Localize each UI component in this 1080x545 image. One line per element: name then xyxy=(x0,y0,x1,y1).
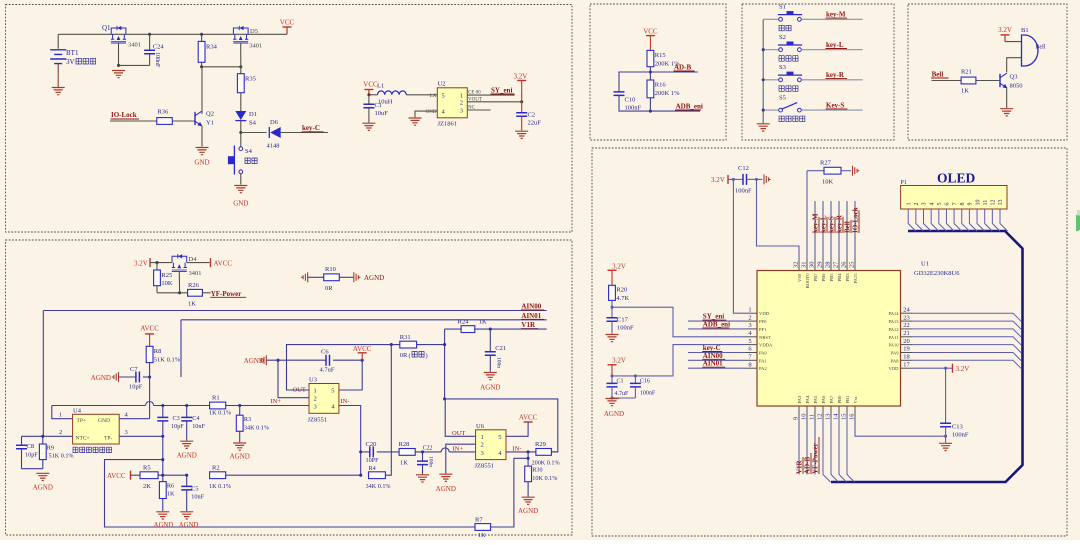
svg-text:D4: D4 xyxy=(189,256,198,263)
svg-text:R10: R10 xyxy=(325,266,336,273)
svg-text:AIN00: AIN00 xyxy=(521,303,541,311)
button S3 xyxy=(763,79,779,81)
svg-text:R7: R7 xyxy=(475,517,483,524)
svg-text:AGND: AGND xyxy=(436,485,456,493)
svg-text:Q2: Q2 xyxy=(206,111,214,118)
svg-text:20: 20 xyxy=(903,338,910,345)
diode D6 xyxy=(270,127,281,138)
svg-text:GND: GND xyxy=(98,418,110,424)
svg-text:1K 0.1%: 1K 0.1% xyxy=(209,410,231,417)
svg-text:3V: 3V xyxy=(66,58,75,66)
wire D6 to key-C label xyxy=(281,132,328,134)
resistor R8 xyxy=(146,346,153,362)
svg-text:1: 1 xyxy=(906,203,912,206)
wire gate node row xyxy=(202,66,241,68)
wire filter row xyxy=(52,405,146,407)
svg-text:100nF: 100nF xyxy=(735,188,752,195)
svg-text:Bell: Bell xyxy=(932,71,944,79)
svg-text:3.2V: 3.2V xyxy=(514,73,528,81)
svg-text:C1: C1 xyxy=(375,102,383,109)
mosfet D4 xyxy=(172,254,187,271)
svg-text:5: 5 xyxy=(331,388,334,395)
svg-text:PA13: PA13 xyxy=(888,319,899,324)
resistor R31 xyxy=(400,341,417,348)
svg-text:IN+: IN+ xyxy=(271,398,282,405)
button S2 xyxy=(763,49,779,51)
svg-text:TP+: TP+ xyxy=(77,418,87,424)
svg-text:100n: 100n xyxy=(496,357,502,368)
connector U4 thermopile xyxy=(73,414,120,444)
svg-text:R36: R36 xyxy=(157,109,169,116)
svg-text:ADB_eni: ADB_eni xyxy=(703,320,730,328)
svg-text:PA2: PA2 xyxy=(759,366,767,371)
capacitor C7 xyxy=(119,376,136,378)
svg-text:V1R: V1R xyxy=(796,459,804,474)
svg-text:10: 10 xyxy=(975,200,981,206)
wire key-S to mcu xyxy=(830,201,832,259)
svg-text:100nF: 100nF xyxy=(617,325,634,332)
svg-text:1: 1 xyxy=(481,434,484,441)
svg-text:PB0: PB0 xyxy=(837,395,842,404)
capacitor C20 xyxy=(361,451,370,453)
chip U2 JZ1861 xyxy=(437,88,467,118)
svg-text:PA8: PA8 xyxy=(891,358,899,363)
capacitor C4 xyxy=(186,406,188,418)
resistor R15 xyxy=(647,50,654,66)
wire R24 to V1R xyxy=(475,328,547,330)
svg-text:100n: 100n xyxy=(428,456,434,467)
svg-text:3.2V: 3.2V xyxy=(956,365,970,373)
svg-text:AD-B: AD-B xyxy=(804,457,812,474)
wire R2 to R4 node xyxy=(226,474,361,476)
svg-text:V1R: V1R xyxy=(521,321,536,329)
analog ground at C12 xyxy=(757,178,763,180)
wire Key-S xyxy=(801,109,862,111)
svg-text:100nF: 100nF xyxy=(952,432,969,439)
svg-text:9: 9 xyxy=(968,203,974,206)
svg-text:Bell: Bell xyxy=(844,221,852,233)
wire buzzer bottom pin to Q3 xyxy=(1007,58,1022,72)
wire U2 VOUT to C2 node xyxy=(467,101,521,103)
svg-text:3.2V: 3.2V xyxy=(612,356,626,364)
svg-text:R2: R2 xyxy=(212,465,220,472)
analog ground at C6 row xyxy=(260,355,267,365)
node R8 C7 xyxy=(148,375,151,378)
svg-text:18: 18 xyxy=(903,354,910,361)
svg-text:R31: R31 xyxy=(400,334,411,341)
svg-text:LX: LX xyxy=(430,94,437,99)
resistor R26 xyxy=(188,289,203,296)
svg-text:S2: S2 xyxy=(779,34,786,41)
svg-text:51K 0.1%: 51K 0.1% xyxy=(49,453,74,460)
svg-text:C5: C5 xyxy=(191,486,198,493)
svg-text:GD32E230K8U6: GD32E230K8U6 xyxy=(914,270,960,277)
svg-text:4148: 4148 xyxy=(267,143,280,150)
svg-text:VCC: VCC xyxy=(280,19,295,27)
wire SY_eni to PF0 xyxy=(688,320,745,322)
svg-text:3401: 3401 xyxy=(128,42,141,49)
op-amp U6 xyxy=(476,430,506,460)
wire key-L xyxy=(801,49,862,51)
svg-text:R1: R1 xyxy=(212,395,220,402)
svg-text:R30: R30 xyxy=(532,467,542,474)
svg-text:29: 29 xyxy=(817,262,824,269)
wire R8 node down to U4 GND pin xyxy=(149,377,151,419)
svg-text:key-L: key-L xyxy=(820,215,828,233)
svg-text:12: 12 xyxy=(991,200,997,206)
svg-text:10nF: 10nF xyxy=(192,423,205,430)
capacitor C6 xyxy=(266,359,326,361)
svg-text:U1: U1 xyxy=(921,261,929,268)
resistor R5 xyxy=(140,472,158,479)
wire U6 out xyxy=(445,399,475,436)
svg-text:C17: C17 xyxy=(617,317,629,324)
capacitor C16 xyxy=(634,376,636,384)
svg-text:1K: 1K xyxy=(188,301,196,308)
power VCC xyxy=(286,27,288,34)
wire R1 to U3 IN+ xyxy=(226,405,309,407)
svg-text:1: 1 xyxy=(748,306,751,313)
svg-text:0R: 0R xyxy=(325,285,333,292)
wire Q3 emitter to ground xyxy=(1006,88,1008,108)
svg-text:PB7: PB7 xyxy=(813,273,818,282)
svg-text:R27: R27 xyxy=(820,160,832,167)
resistor R27 xyxy=(807,170,824,172)
svg-text:2: 2 xyxy=(748,314,751,321)
svg-text:100nF: 100nF xyxy=(154,52,160,68)
diode D1 xyxy=(235,111,246,120)
svg-text:32: 32 xyxy=(793,262,800,269)
svg-text:key-R: key-R xyxy=(826,71,845,79)
svg-text:10pF: 10pF xyxy=(25,452,38,459)
svg-text:3: 3 xyxy=(125,429,128,436)
svg-text:3: 3 xyxy=(460,108,463,115)
svg-text:3.2V: 3.2V xyxy=(998,26,1012,34)
wire AIN00 down to NTC node xyxy=(42,311,44,437)
svg-text:key-L: key-L xyxy=(826,41,844,49)
wire R28 to U6 IN+ with hop xyxy=(415,451,441,453)
svg-text:R35: R35 xyxy=(245,76,256,83)
svg-text:VSS: VSS xyxy=(797,273,802,282)
capacitor C1 xyxy=(368,95,370,104)
svg-text:IN-: IN- xyxy=(513,445,522,452)
svg-text:14: 14 xyxy=(833,413,840,420)
svg-text:5: 5 xyxy=(748,338,751,345)
svg-text:31: 31 xyxy=(801,262,808,269)
wire R7 to U6 IN- node xyxy=(491,458,528,527)
ground under C1 mcu xyxy=(606,399,619,406)
svg-text:1K 0.1%: 1K 0.1% xyxy=(209,483,231,490)
analog ground at R27 xyxy=(841,170,851,172)
svg-text:AVCC: AVCC xyxy=(519,413,538,421)
svg-text:8: 8 xyxy=(960,203,966,206)
resistor R4 xyxy=(369,472,386,479)
svg-text:5: 5 xyxy=(937,203,943,206)
svg-text:U4: U4 xyxy=(73,407,82,414)
svg-text:10K: 10K xyxy=(822,179,834,186)
svg-text:PA5: PA5 xyxy=(813,395,818,403)
wire Q2 collector xyxy=(201,67,203,114)
wire rail to node X xyxy=(391,344,444,346)
svg-text:2K: 2K xyxy=(143,483,151,490)
svg-text:P1: P1 xyxy=(901,180,907,186)
svg-text:S1: S1 xyxy=(779,4,786,11)
svg-text:GND: GND xyxy=(233,200,248,208)
svg-text:1K: 1K xyxy=(400,460,408,467)
analog ground at C7 xyxy=(112,372,119,382)
ground under C13 xyxy=(939,443,952,450)
wire Bell to mcu xyxy=(846,201,848,259)
svg-text:BT1: BT1 xyxy=(66,49,79,57)
svg-text:100nF: 100nF xyxy=(640,391,656,397)
svg-text:C21: C21 xyxy=(495,345,506,352)
ground under R30 xyxy=(522,497,535,504)
svg-text:Q3: Q3 xyxy=(1010,74,1018,81)
svg-text:3: 3 xyxy=(481,450,484,457)
resistor R34 xyxy=(201,34,203,41)
wire U4 NTC pin to node xyxy=(22,435,73,437)
svg-text:2: 2 xyxy=(460,100,463,107)
svg-text:10K: 10K xyxy=(161,280,173,287)
svg-text:AGND: AGND xyxy=(177,452,197,460)
wire R27 to BOOT0 pin31 xyxy=(806,171,808,259)
svg-text:15: 15 xyxy=(841,414,848,421)
svg-text:D1: D1 xyxy=(249,111,257,118)
svg-text:2: 2 xyxy=(914,203,920,206)
svg-text:AD-B: AD-B xyxy=(674,64,691,72)
svg-text:C24: C24 xyxy=(153,44,165,51)
svg-text:3: 3 xyxy=(314,404,317,411)
svg-text:17: 17 xyxy=(903,361,910,368)
svg-text:D5: D5 xyxy=(250,28,258,35)
ground under C5 xyxy=(180,512,193,519)
wire D5 gate down xyxy=(240,43,242,67)
wire node to S4 xyxy=(240,133,242,147)
svg-text:28: 28 xyxy=(825,262,832,269)
svg-text:34K 0.1%: 34K 0.1% xyxy=(244,425,269,432)
ground under C21 xyxy=(484,373,497,380)
transistor Q3 xyxy=(1000,73,1007,88)
svg-text:1K: 1K xyxy=(961,88,969,95)
svg-text:3.2V: 3.2V xyxy=(612,263,626,271)
bus oled main xyxy=(831,231,1023,482)
svg-text:10pF: 10pF xyxy=(171,423,184,430)
svg-text:Q1: Q1 xyxy=(102,24,111,32)
svg-text:C16: C16 xyxy=(640,379,650,385)
block border bell xyxy=(908,4,1067,140)
svg-text:C13: C13 xyxy=(952,424,963,431)
wire Q2 emitter to ground xyxy=(201,126,203,147)
wire U6 Vminus to ground xyxy=(446,444,476,473)
svg-text:1: 1 xyxy=(460,93,463,100)
svg-text:OLED: OLED xyxy=(937,171,976,186)
svg-text:Bell: Bell xyxy=(1036,45,1046,51)
wire U3 Vplus to AVCC xyxy=(339,360,362,390)
svg-text:PA12: PA12 xyxy=(888,327,899,332)
wire R4 to rail xyxy=(385,345,391,476)
wire R20 node to NRST xyxy=(612,307,745,337)
wire AIN01 down to R8 node xyxy=(180,320,182,377)
svg-text:26: 26 xyxy=(841,261,848,268)
buzzer B1 xyxy=(1022,35,1038,66)
wires mcu right pins to bus xyxy=(913,313,1022,322)
wire key-M xyxy=(801,18,862,20)
svg-text:1: 1 xyxy=(314,388,317,395)
node ADB_eni xyxy=(649,110,652,113)
block border mcu xyxy=(592,148,1067,536)
svg-text:PA15: PA15 xyxy=(853,273,858,284)
svg-text:34K 0.1%: 34K 0.1% xyxy=(366,483,391,490)
mcu top pin stubs xyxy=(798,259,800,271)
svg-text:2: 2 xyxy=(481,442,484,449)
svg-text:3: 3 xyxy=(748,322,751,329)
svg-text:AIN00: AIN00 xyxy=(703,352,723,360)
svg-text:10pF: 10pF xyxy=(129,384,143,391)
svg-text:R24: R24 xyxy=(458,319,470,326)
wire key-R xyxy=(801,79,862,81)
svg-text:PA3: PA3 xyxy=(797,395,802,403)
svg-text:VCC: VCC xyxy=(363,81,378,89)
svg-text:5: 5 xyxy=(442,93,445,100)
wire Q1 gate to gnd node xyxy=(119,43,150,66)
wire R36 to Q2 base xyxy=(172,120,195,122)
svg-text:JZ8551: JZ8551 xyxy=(308,417,328,424)
resistor R1 xyxy=(210,402,226,409)
resistor R3 xyxy=(239,406,241,416)
wire C1 C16 bottom xyxy=(612,397,635,399)
svg-text:(: ( xyxy=(409,353,411,360)
svg-text:C10: C10 xyxy=(625,97,636,104)
wire 3.2V to Q4 xyxy=(150,262,172,264)
svg-text:L1: L1 xyxy=(377,83,384,90)
wire AIN00 to PA1 xyxy=(688,359,745,361)
wire VDDA pin5 xyxy=(612,345,745,376)
svg-text:R6: R6 xyxy=(167,483,174,490)
svg-text:AVCC: AVCC xyxy=(214,259,233,267)
wire C12 to VDD pin1 xyxy=(733,179,745,313)
svg-text:key-R: key-R xyxy=(836,214,844,233)
wire YF-Power vertical xyxy=(814,418,816,475)
svg-text:S4: S4 xyxy=(249,120,257,127)
svg-text:AVCC: AVCC xyxy=(107,472,126,480)
svg-text:R25: R25 xyxy=(161,272,172,279)
resistor R10 xyxy=(301,272,308,282)
svg-text:1K: 1K xyxy=(479,319,487,326)
svg-text:key-M: key-M xyxy=(812,213,820,233)
svg-text:BOOT0: BOOT0 xyxy=(805,273,810,289)
wire net AIN00 xyxy=(43,310,546,312)
wire TP+ to filter row xyxy=(52,406,73,419)
mcu left pin stubs xyxy=(745,312,757,314)
ground under C4 xyxy=(180,441,193,448)
wire U3 Vminus to AGND row xyxy=(278,360,309,398)
svg-text:4.7uF: 4.7uF xyxy=(615,391,630,397)
ground under C1 xyxy=(362,123,375,130)
svg-text:30: 30 xyxy=(809,262,816,269)
capacitor C17 xyxy=(611,307,613,317)
svg-text:R4: R4 xyxy=(369,465,376,472)
resistor R30 xyxy=(527,452,529,466)
svg-text:VDD: VDD xyxy=(889,366,900,371)
svg-text:C2: C2 xyxy=(528,112,536,119)
wire R25 to R26 node xyxy=(157,292,188,294)
svg-text:24: 24 xyxy=(903,306,910,313)
power AVCC at Q4 xyxy=(210,258,212,267)
svg-text:C12: C12 xyxy=(738,165,749,172)
svg-text:SY_eni: SY_eni xyxy=(703,313,724,321)
resistor R2 xyxy=(210,472,226,479)
svg-text:3401: 3401 xyxy=(189,270,202,277)
svg-text:4.7K: 4.7K xyxy=(616,295,629,302)
svg-text:Vss: Vss xyxy=(853,396,858,403)
wire R29 right to loop xyxy=(551,451,557,453)
mcu U1 GD32E230K8U6 xyxy=(757,271,901,407)
svg-text:S5: S5 xyxy=(779,94,786,101)
block border keys xyxy=(742,4,894,140)
svg-text:AGND: AGND xyxy=(518,507,538,515)
ground under S4 xyxy=(234,186,247,193)
svg-text:1K: 1K xyxy=(167,491,175,498)
svg-text:7: 7 xyxy=(952,203,958,206)
wire R5 to C5 node xyxy=(158,474,187,476)
svg-text:JZ1861: JZ1861 xyxy=(438,121,458,128)
capacitor C3 xyxy=(162,406,164,418)
svg-text:R15: R15 xyxy=(655,52,666,59)
svg-text:PA10: PA10 xyxy=(888,343,899,348)
svg-text:AVCC: AVCC xyxy=(353,345,372,353)
resistor R6 xyxy=(162,475,164,481)
svg-text:key-C: key-C xyxy=(302,124,320,132)
svg-text:AGND: AGND xyxy=(230,453,250,461)
svg-text:key-C: key-C xyxy=(703,344,721,352)
svg-text:22uF: 22uF xyxy=(528,120,542,127)
wire D1 to node xyxy=(240,121,242,133)
svg-text:ADB_eni: ADB_eni xyxy=(676,103,703,111)
battery BT1 xyxy=(57,34,59,49)
svg-text:YF-Power: YF-Power xyxy=(812,443,820,474)
svg-text:2: 2 xyxy=(59,429,62,436)
ground under C22 xyxy=(416,475,429,482)
connector P1 OLED xyxy=(901,186,1007,210)
svg-text:C1: C1 xyxy=(617,379,624,385)
ground under C2 xyxy=(515,131,528,138)
wire key-C to PA0 xyxy=(688,352,745,354)
svg-text:D6: D6 xyxy=(270,119,279,126)
wire L1 to U2 LX xyxy=(406,94,437,96)
svg-text:27: 27 xyxy=(833,261,840,268)
wire U2 CE pin xyxy=(467,94,514,96)
svg-text:200K 0.1%: 200K 0.1% xyxy=(532,460,560,467)
ground under battery xyxy=(52,88,65,95)
wire AIN01 to PA2 xyxy=(688,367,745,369)
capacitor C2 xyxy=(521,102,523,113)
svg-text:PA1: PA1 xyxy=(759,358,767,363)
mcu bottom pin stubs xyxy=(798,406,800,418)
svg-text:R8: R8 xyxy=(154,348,162,355)
resistor R28 xyxy=(399,449,415,456)
resistor R29 xyxy=(536,449,552,456)
svg-text:C6: C6 xyxy=(321,349,329,356)
wire U3 IN- down xyxy=(339,406,361,476)
wire C8 R9 bottom join xyxy=(22,468,43,470)
mosfet D5 xyxy=(233,26,248,43)
svg-text:Key-S: Key-S xyxy=(826,101,844,109)
capacitor C1 mcu xyxy=(611,376,613,384)
svg-text:R29: R29 xyxy=(535,441,546,448)
svg-text:TP-: TP- xyxy=(104,435,112,441)
svg-text:IN+: IN+ xyxy=(453,445,464,452)
button S4 xyxy=(239,147,243,151)
